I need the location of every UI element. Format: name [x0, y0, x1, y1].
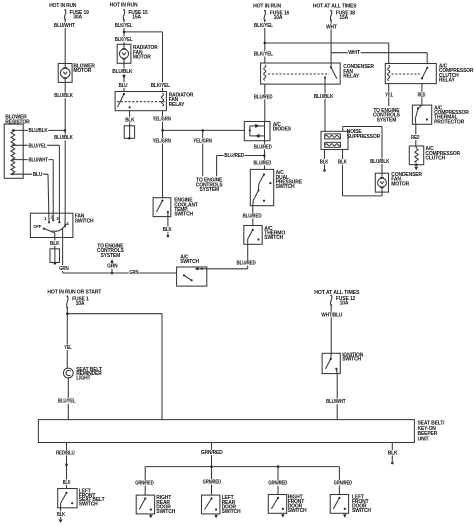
svg-text:RELAY: RELAY	[169, 102, 186, 108]
svg-text:SWITCH: SWITCH	[180, 259, 199, 265]
svg-text:HOT AT ALL TIMES: HOT AT ALL TIMES	[313, 4, 357, 10]
svg-text:BLK: BLK	[57, 512, 66, 518]
svg-text:SWITCH: SWITCH	[75, 218, 94, 224]
svg-text:BLK: BLK	[338, 160, 347, 166]
svg-text:BLU/RED: BLU/RED	[254, 94, 273, 100]
svg-text:YEL/GRN: YEL/GRN	[153, 139, 172, 145]
svg-text:BLU/WHT: BLU/WHT	[54, 23, 75, 29]
svg-text:SYSTEM: SYSTEM	[199, 187, 219, 193]
svg-text:RELAY: RELAY	[439, 78, 456, 84]
svg-text:MOTOR: MOTOR	[391, 181, 409, 187]
svg-text:SWITCH: SWITCH	[79, 502, 98, 508]
svg-text:15A: 15A	[132, 15, 141, 21]
svg-text:YEL/GRN: YEL/GRN	[193, 139, 212, 145]
svg-text:15A: 15A	[339, 15, 348, 21]
svg-text:WHT: WHT	[326, 24, 337, 30]
svg-text:RED: RED	[418, 92, 426, 98]
svg-text:30A: 30A	[73, 15, 82, 21]
svg-text:BLK/YEL: BLK/YEL	[254, 52, 273, 58]
svg-text:SWITCH: SWITCH	[276, 184, 295, 190]
svg-text:BLK: BLK	[320, 160, 329, 166]
svg-text:WHT: WHT	[348, 50, 360, 56]
svg-text:BLK/YEL: BLK/YEL	[151, 83, 170, 89]
svg-text:10A: 10A	[340, 300, 349, 306]
svg-text:HOT IN RUN: HOT IN RUN	[110, 3, 138, 9]
svg-text:SWITCH: SWITCH	[288, 508, 307, 514]
svg-text:HOT IN RUN: HOT IN RUN	[49, 3, 77, 9]
svg-text:CLUTCH: CLUTCH	[425, 156, 445, 162]
svg-text:SWITCH: SWITCH	[174, 212, 193, 218]
svg-text:SYSTEM: SYSTEM	[100, 253, 120, 259]
svg-text:GRN/RED: GRN/RED	[268, 481, 287, 487]
svg-text:SWITCH: SWITCH	[264, 235, 283, 241]
svg-text:SWITCH: SWITCH	[342, 357, 361, 363]
svg-text:HOT IN RUN: HOT IN RUN	[253, 4, 281, 10]
svg-text:BLU/YEL: BLU/YEL	[58, 399, 76, 405]
svg-text:BLU/RED: BLU/RED	[237, 261, 257, 267]
svg-text:BLU/RED: BLU/RED	[243, 214, 262, 220]
svg-text:YEL/GRN: YEL/GRN	[153, 117, 172, 123]
svg-text:GRN/RED: GRN/RED	[201, 450, 223, 456]
svg-text:RELAY: RELAY	[343, 74, 360, 80]
svg-text:GRN/RED: GRN/RED	[203, 480, 222, 486]
svg-text:BLK: BLK	[50, 241, 60, 247]
svg-text:BLU: BLU	[33, 172, 43, 178]
svg-text:BLU: BLU	[119, 83, 128, 89]
svg-text:LIGHT: LIGHT	[76, 376, 90, 382]
svg-text:10A: 10A	[274, 15, 283, 21]
svg-text:YEL: YEL	[64, 345, 71, 351]
svg-text:PROTECTOR: PROTECTOR	[434, 119, 464, 125]
svg-text:BLK: BLK	[163, 227, 172, 233]
svg-text:BLU/BLK: BLU/BLK	[112, 69, 133, 75]
svg-text:BLU/BLK: BLU/BLK	[54, 135, 73, 141]
svg-text:GRN: GRN	[59, 266, 69, 272]
svg-text:BLK/YEL: BLK/YEL	[115, 23, 133, 29]
svg-text:GRN: GRN	[129, 270, 139, 276]
svg-text:BLU/YEL: BLU/YEL	[29, 143, 47, 149]
svg-text:YEL: YEL	[385, 92, 393, 98]
svg-text:10A: 10A	[76, 301, 85, 307]
svg-text:BLU/RED: BLU/RED	[253, 160, 271, 166]
svg-text:RESISTOR: RESISTOR	[5, 119, 30, 125]
svg-text:BLU/RED: BLU/RED	[254, 144, 272, 150]
svg-text:MOTOR: MOTOR	[133, 55, 151, 61]
svg-text:UNIT: UNIT	[418, 437, 429, 443]
svg-text:MOTOR: MOTOR	[73, 68, 91, 74]
svg-text:SYSTEM: SYSTEM	[377, 117, 397, 123]
svg-text:BLK: BLK	[125, 118, 135, 124]
svg-text:SWITCH: SWITCH	[352, 508, 371, 514]
svg-text:BLU/BLK: BLU/BLK	[54, 93, 73, 99]
svg-text:RED: RED	[411, 135, 420, 141]
svg-text:BLU/BLK: BLU/BLK	[29, 128, 48, 134]
svg-text:BLK: BLK	[63, 480, 71, 486]
svg-text:SWITCH: SWITCH	[222, 509, 241, 515]
svg-text:WHT/BLU: WHT/BLU	[321, 312, 342, 318]
svg-text:BLU/WHT: BLU/WHT	[29, 157, 48, 163]
svg-text:BLU/RED: BLU/RED	[224, 153, 244, 159]
svg-text:RED/BLU: RED/BLU	[56, 450, 75, 456]
svg-text:BLK: BLK	[388, 451, 398, 457]
svg-text:GRN/RED: GRN/RED	[334, 481, 353, 487]
svg-text:HOT IN RUN OR START: HOT IN RUN OR START	[47, 290, 101, 296]
svg-text:DIODES: DIODES	[273, 127, 292, 133]
svg-text:SUPPRESSOR: SUPPRESSOR	[347, 134, 381, 140]
svg-text:GRN/RED: GRN/RED	[135, 481, 154, 487]
svg-text:BLK/YEL: BLK/YEL	[254, 23, 273, 29]
svg-text:BLU/BLK: BLU/BLK	[314, 94, 334, 100]
svg-text:BLK/YEL: BLK/YEL	[115, 37, 133, 43]
svg-text:BLU/WHT: BLU/WHT	[326, 399, 346, 405]
svg-text:OFF: OFF	[33, 224, 41, 229]
svg-text:BLU/BLK: BLU/BLK	[370, 159, 390, 165]
svg-text:SWITCH: SWITCH	[156, 509, 175, 515]
svg-text:GRN: GRN	[107, 264, 118, 270]
